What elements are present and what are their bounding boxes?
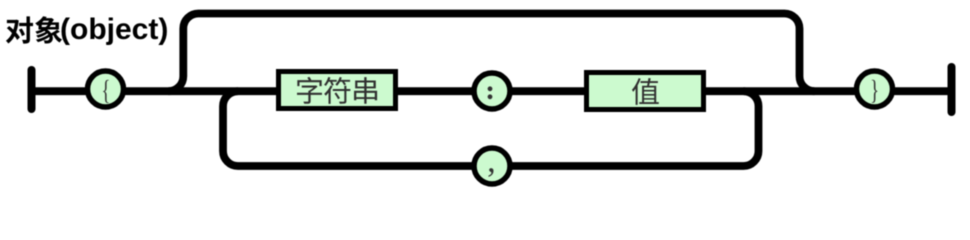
terminal , — [474, 148, 510, 184]
label 字符串 — [297, 77, 322, 104]
start terminal — [28, 70, 36, 109]
terminal } — [857, 71, 893, 107]
svg-text:(object): (object) — [60, 13, 168, 46]
wire top bypass — [168, 14, 814, 92]
title 对象 — [6, 16, 33, 43]
nonterminal 字符串 box — [279, 72, 396, 109]
nonterminal 值 box — [587, 73, 704, 110]
terminal { — [88, 71, 124, 107]
label 值 — [632, 78, 659, 105]
end terminal — [948, 67, 956, 112]
terminal : — [474, 73, 510, 109]
wire main line — [32, 87, 952, 95]
wire bottom loop — [223, 91, 759, 166]
